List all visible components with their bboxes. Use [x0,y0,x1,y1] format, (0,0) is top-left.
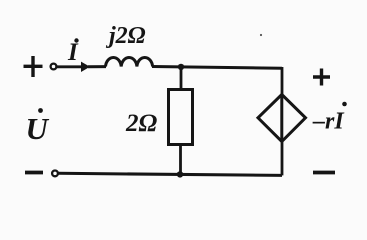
resistor 2Ω (rectangle) [169,90,193,145]
voltage label Ů [26,108,50,146]
bottom-left terminal [52,171,58,177]
inductor j2Ω [106,57,153,66]
svg-text:I: I [67,39,79,66]
minus sign (right polarity) [313,171,335,175]
label -rİ [312,102,347,135]
minus sign (left polarity) [25,171,43,175]
junction (bottom of resistor branch) [177,171,183,177]
wire: dependent source bottom to bottom-right corner [281,141,284,175]
plus sign (right polarity) [313,69,330,86]
wire: resistor bottom to bottom wire [179,145,182,176]
speckle (scan artifact) [260,34,262,36]
wire: junction down to resistor [180,67,183,91]
plus sign (left port polarity) [24,56,43,77]
dependent source -rİ (diamond with internal line) [258,95,306,142]
top-left terminal [51,64,57,70]
svg-text:U: U [26,111,50,146]
junction (top of resistor branch) [178,64,184,70]
svg-text:–rI: –rI [312,109,345,135]
wire: inductor to top-right corner [152,67,282,69]
current label İ [67,38,79,66]
wire: top-right corner down to dependent source [281,67,284,95]
wire: arrow to inductor [88,65,106,68]
current arrow [57,62,90,72]
wire: bottom (terminal to bottom-right corner) [58,173,282,175]
svg-text:j2Ω: j2Ω [105,23,146,49]
svg-text:2Ω: 2Ω [125,110,158,137]
